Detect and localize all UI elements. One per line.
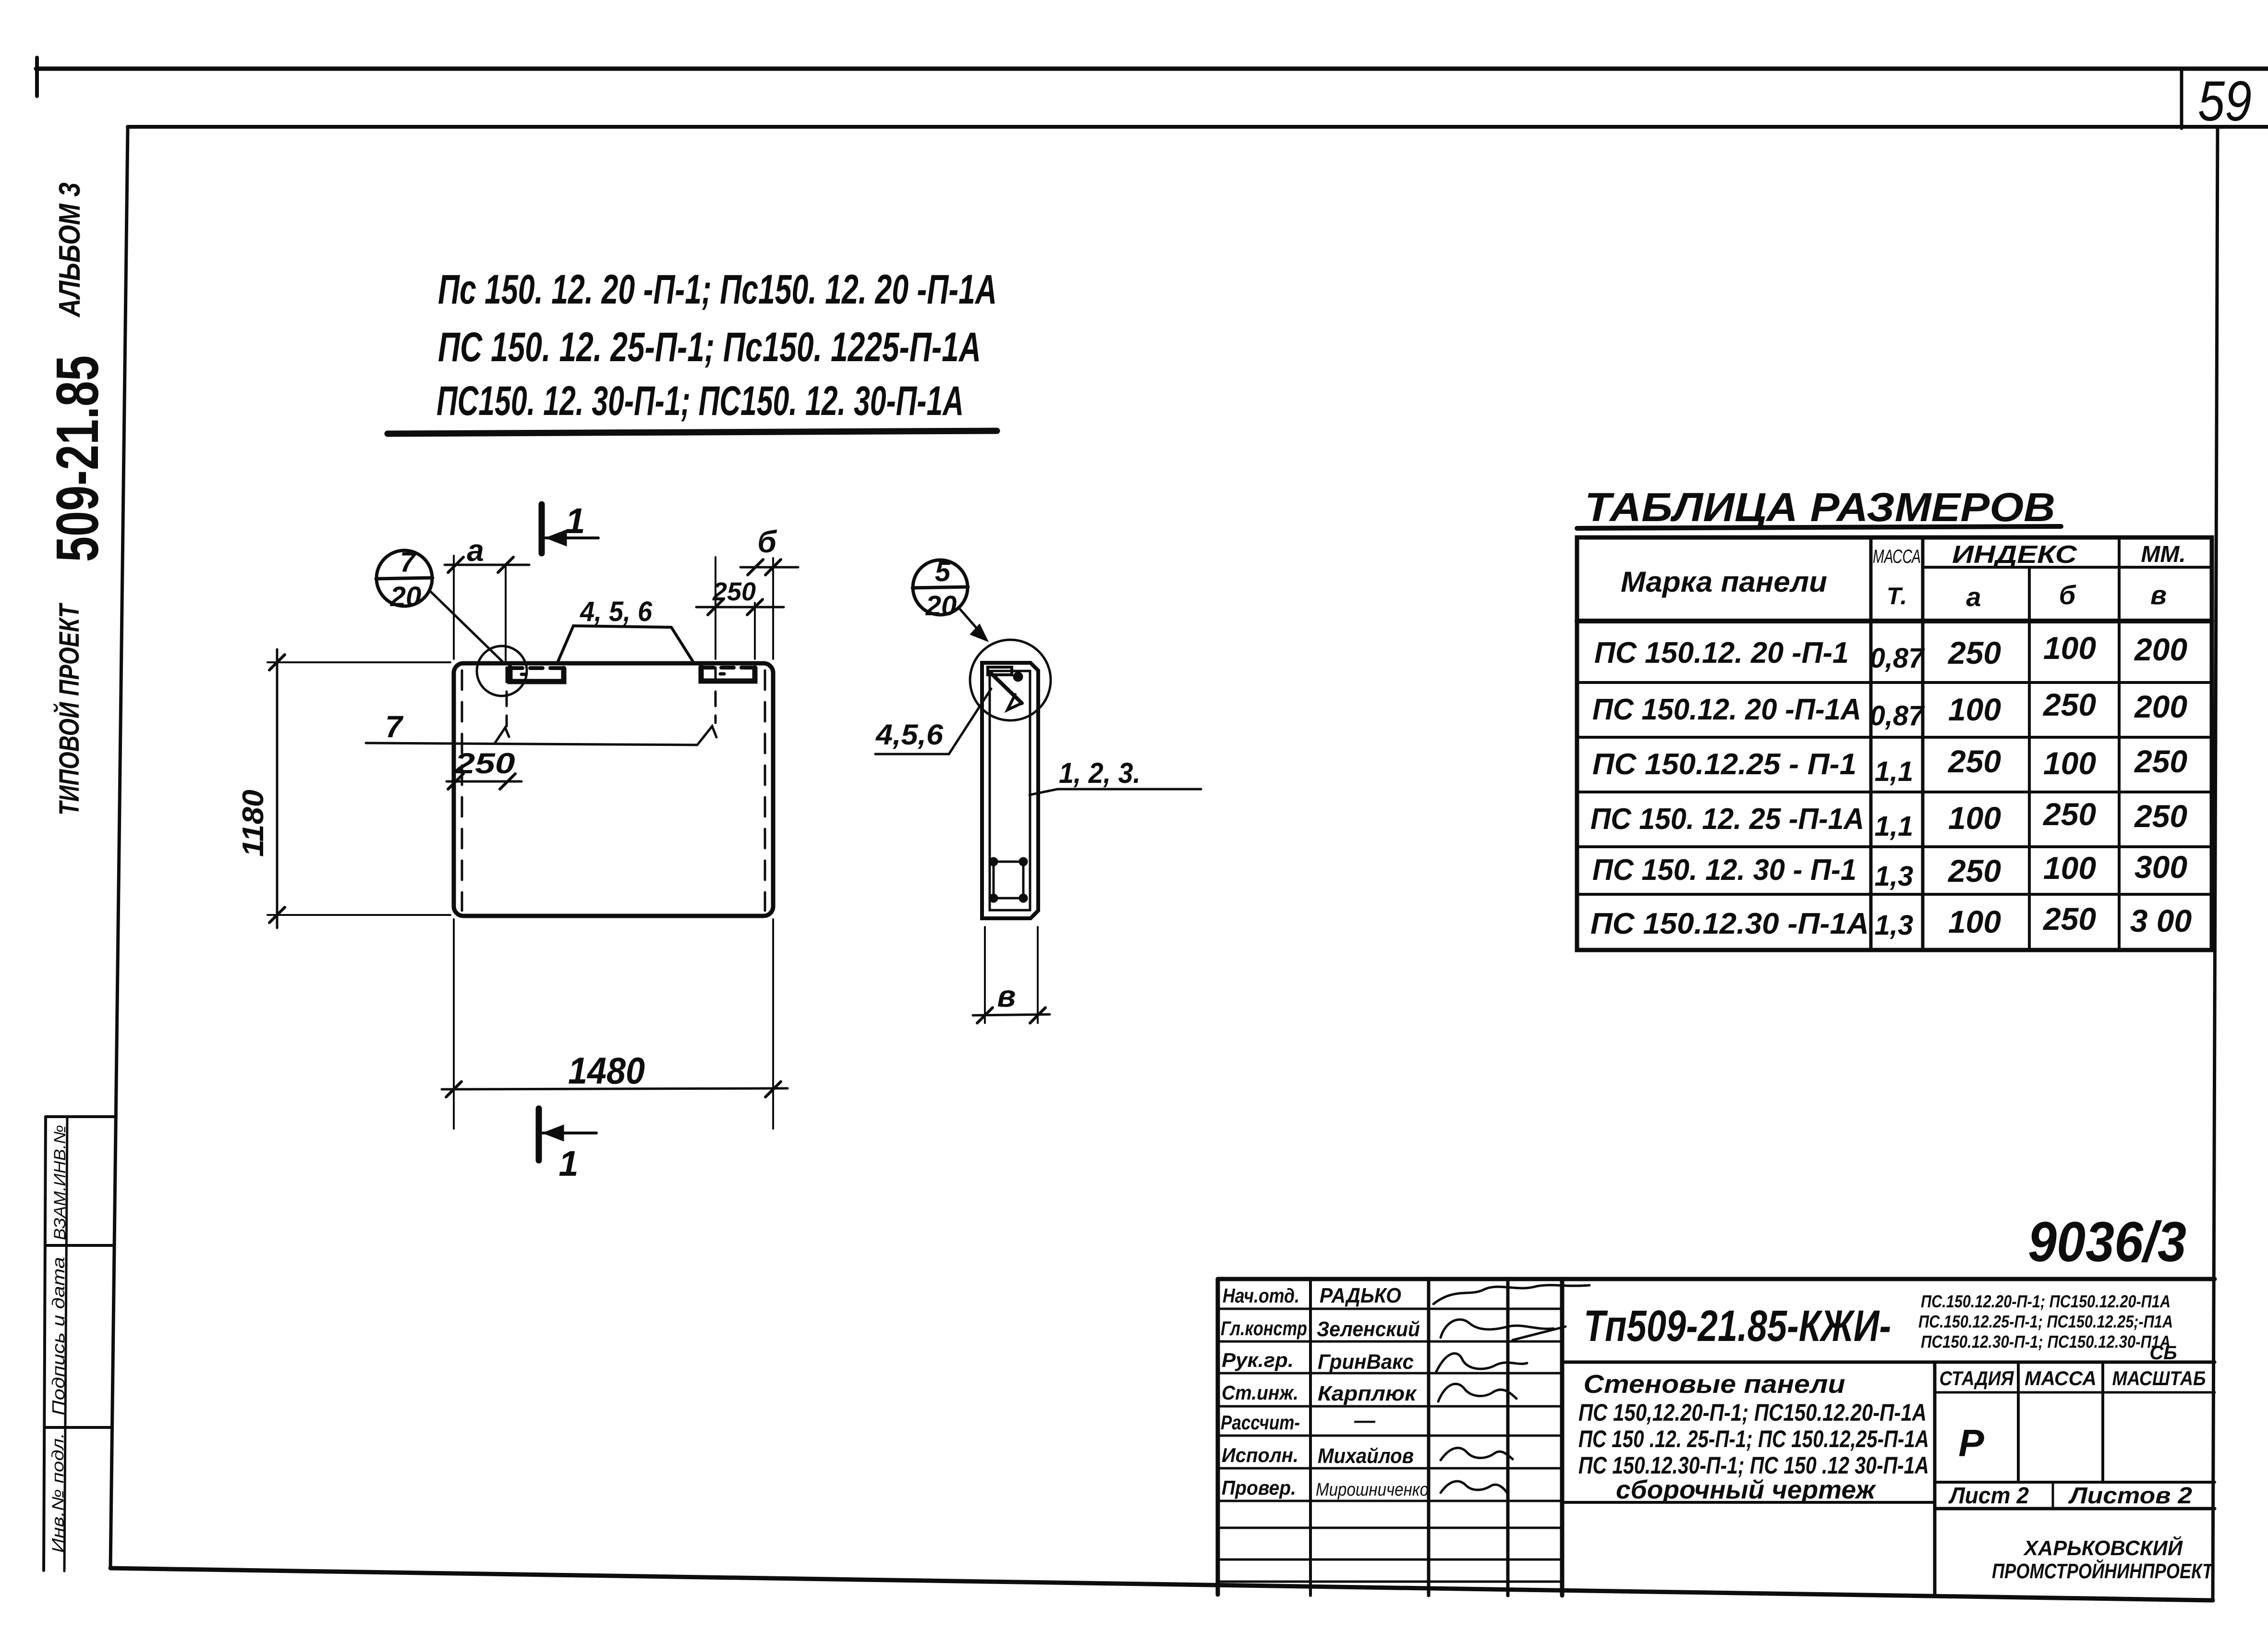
panel hidden edge left dashed [461, 670, 463, 911]
title block name labels [1316, 1284, 1429, 1500]
title block header underline [1562, 1361, 2215, 1364]
side section rebar cage [989, 857, 1028, 902]
title block stage letter [1958, 1422, 1984, 1464]
loop hidden dashed left [506, 668, 508, 726]
svg-text:7: 7 [385, 709, 404, 744]
size table title [1585, 485, 2055, 530]
svg-text:ПС 150.12. 20 -П-1: ПС 150.12. 20 -П-1 [1594, 636, 1849, 670]
svg-text:ПС 150. 12. 25-П-1; Пс150. 122: ПС 150. 12. 25-П-1; Пс150. 1225-П-1А [438, 324, 981, 370]
drawing frame top [128, 125, 2268, 129]
svg-text:4,5,6: 4,5,6 [875, 719, 944, 751]
svg-text:АЛЬБОМ 3: АЛЬБОМ 3 [53, 183, 86, 318]
svg-text:Т.: Т. [1887, 583, 1907, 609]
title block outer top [1218, 1277, 2215, 1281]
svg-text:ПС 150.12. 20 -П-1А: ПС 150.12. 20 -П-1А [1592, 693, 1861, 726]
svg-text:250: 250 [1947, 635, 2001, 670]
svg-text:ВЗАМ.ИНВ.№: ВЗАМ.ИНВ.№ [51, 1125, 69, 1240]
svg-text:в: в [997, 979, 1016, 1013]
dim b label [757, 524, 777, 559]
svg-text:ТАБЛИЦА РАЗМЕРОВ: ТАБЛИЦА РАЗМЕРОВ [1585, 485, 2055, 530]
svg-text:1180: 1180 [237, 790, 270, 857]
title block code big [1584, 1302, 1891, 1351]
label 4,5,6 front [580, 596, 653, 627]
svg-text:Провер.: Провер. [1222, 1476, 1296, 1499]
dim v extension lines [985, 927, 1038, 1023]
size table header bottom line [1577, 619, 2212, 623]
svg-text:250: 250 [712, 577, 756, 606]
dim 1180 extension lines [267, 662, 450, 915]
svg-text:1,1: 1,1 [1875, 756, 1914, 787]
svg-text:9036/3: 9036/3 [2028, 1210, 2186, 1274]
left margin text типовой проект [53, 602, 85, 816]
svg-text:ПС.150.12.25-П-1; ПС150.12.25;: ПС.150.12.25-П-1; ПС150.12.25;-П1А [1918, 1312, 2173, 1331]
svg-text:1480: 1480 [568, 1049, 645, 1092]
title block sheet numbers [1948, 1483, 2192, 1509]
svg-text:—: — [1354, 1409, 1376, 1432]
svg-text:100: 100 [2043, 850, 2096, 886]
section mark 1 bottom arrow [543, 1125, 596, 1141]
top rule [36, 67, 2268, 71]
title block signature row lines [1218, 1309, 1562, 1582]
balloon 7/20 leader [430, 591, 504, 663]
title block outer left [1216, 1279, 1220, 1595]
drawing frame left [110, 127, 128, 1568]
svg-text:5: 5 [935, 556, 951, 587]
svg-text:1: 1 [558, 1144, 578, 1183]
svg-text:ПС 150.12.30-П-1; ПС 150 .12 3: ПС 150.12.30-П-1; ПС 150 .12 30-П-1А [1578, 1452, 1929, 1479]
dim a extension lines [454, 556, 506, 662]
size table row 3 [1592, 743, 2187, 787]
size table row 5 [1592, 849, 2187, 892]
left stamp label подпись и дата [49, 1257, 68, 1415]
label 1,2,3 side [1059, 757, 1140, 789]
sheet number 59 [2198, 70, 2252, 133]
dim 250 left line [447, 774, 522, 789]
section mark 1 top bar [539, 504, 545, 553]
svg-text:20: 20 [390, 581, 422, 612]
size table header a b v [1966, 580, 2166, 612]
title block stage headers [1940, 1367, 2206, 1389]
svg-text:100: 100 [1948, 692, 2001, 727]
signature scribble row 3 [1436, 1353, 1527, 1373]
svg-text:100: 100 [2043, 745, 2096, 781]
dim b line [740, 560, 798, 575]
svg-text:МАССА: МАССА [1873, 546, 1921, 567]
heading underline [388, 431, 997, 434]
drawing frame bottom [110, 1568, 2213, 1600]
svg-text:1: 1 [565, 501, 585, 541]
label 1,2,3 side leader [1030, 789, 1201, 795]
size table header massa [1873, 546, 1921, 609]
balloon 7/20 [376, 547, 433, 612]
dim a label [467, 533, 484, 568]
svg-text:Лист 2: Лист 2 [1948, 1483, 2029, 1509]
svg-text:Рассчит-: Рассчит- [1221, 1411, 1300, 1434]
svg-text:ПС.150.12.20-П-1; ПС150.12.20-: ПС.150.12.20-П-1; ПС150.12.20-П1А [1921, 1292, 2171, 1311]
detail circle on left loop [477, 646, 527, 696]
svg-text:Зеленский: Зеленский [1317, 1317, 1420, 1341]
svg-text:ПС 150.12.25 - П-1: ПС 150.12.25 - П-1 [1592, 748, 1856, 781]
heading line 3 [437, 378, 964, 424]
left stamp strip outline [44, 1117, 114, 1571]
svg-text:200: 200 [2134, 632, 2187, 667]
svg-text:ПС 150 .12. 25-П-1; ПС 150.12,: ПС 150 .12. 25-П-1; ПС 150.12,25-П-1А [1578, 1426, 1929, 1452]
svg-text:250: 250 [2134, 743, 2187, 779]
dim 1480 line [442, 1082, 788, 1097]
heading line 1 [438, 267, 997, 313]
lifting loop right [701, 667, 755, 681]
left margin text albom 3 [53, 183, 86, 318]
leader 7 line [366, 726, 716, 745]
groove callout trapezoid [558, 626, 693, 662]
dim v label [997, 979, 1016, 1013]
svg-text:ГринВакс: ГринВакс [1318, 1350, 1414, 1374]
svg-text:Листов 2: Листов 2 [2068, 1483, 2193, 1509]
svg-text:Нач.отд.: Нач.отд. [1223, 1284, 1299, 1307]
label 4,5,6 side leader [875, 689, 991, 754]
dim 1480 extension lines [454, 919, 773, 1129]
title block right column lines [1562, 1362, 2215, 1596]
dim a line [445, 557, 529, 573]
title block column lines [1310, 1279, 1562, 1596]
section mark 1 bottom bar [536, 1109, 542, 1160]
svg-text:Мирошниченко: Мирошниченко [1316, 1480, 1429, 1500]
left stamp label инв. подл. [49, 1433, 67, 1553]
svg-text:0,87: 0,87 [1870, 643, 1926, 674]
balloon 5/20 [912, 556, 968, 621]
svg-text:а: а [467, 533, 484, 568]
dim 1180 line [269, 649, 285, 928]
svg-text:250: 250 [2042, 796, 2096, 832]
panel front view outline [454, 663, 773, 916]
svg-text:МАССА: МАССА [2025, 1367, 2097, 1389]
svg-text:4, 5, 6: 4, 5, 6 [580, 596, 653, 627]
svg-text:СТАДИЯ: СТАДИЯ [1940, 1367, 2014, 1389]
signature scribble row 1 [1433, 1285, 1589, 1304]
dim 1480 label [568, 1049, 645, 1092]
size table header underline for index [1923, 566, 2212, 569]
signature scribble row 4 [1438, 1384, 1516, 1401]
heading line 2 [438, 324, 981, 370]
svg-text:250: 250 [2042, 901, 2096, 937]
size table outer box [1577, 537, 2212, 950]
svg-text:СБ: СБ [2149, 1342, 2177, 1364]
svg-text:1,3: 1,3 [1875, 910, 1914, 941]
signature scribble row 6 [1441, 1448, 1513, 1460]
svg-text:20: 20 [925, 590, 957, 621]
svg-text:200: 200 [2134, 689, 2187, 724]
section mark 1 top arrow [546, 530, 598, 546]
svg-text:ХАРЬКОВСКИЙ: ХАРЬКОВСКИЙ [2023, 1535, 2183, 1560]
svg-text:250: 250 [454, 747, 515, 780]
dim 250 top right label [712, 577, 756, 606]
svg-text:в: в [2150, 580, 2167, 610]
svg-text:Рук.гр.: Рук.гр. [1222, 1349, 1294, 1371]
svg-text:РАДЬКО: РАДЬКО [1320, 1284, 1401, 1307]
svg-text:3 00: 3 00 [2130, 903, 2192, 938]
size table header marka [1621, 566, 1827, 598]
lifting loop left [510, 668, 564, 682]
side section top anchor detail [988, 667, 1023, 710]
svg-text:250: 250 [2042, 687, 2096, 722]
svg-text:Марка панели: Марка панели [1621, 566, 1827, 598]
svg-text:Инв.№ подл.: Инв.№ подл. [49, 1433, 67, 1553]
dim 250 top right line [696, 599, 784, 615]
svg-text:Ст.инж.: Ст.инж. [1222, 1381, 1298, 1404]
svg-text:59: 59 [2198, 70, 2252, 133]
detail circle on section top [970, 640, 1051, 720]
dim 250 left label [454, 747, 515, 780]
svg-text:0,87: 0,87 [1870, 700, 1926, 731]
svg-text:1,3: 1,3 [1875, 861, 1914, 892]
signature scribble row 7 [1441, 1481, 1508, 1494]
size table row 1 [1594, 630, 2187, 674]
svg-text:б: б [757, 524, 777, 559]
signature scribble row 2 [1441, 1319, 1565, 1340]
size table row lines [1577, 682, 2212, 894]
label 4,5,6 side [875, 719, 944, 751]
svg-text:509-21.85: 509-21.85 [45, 355, 111, 562]
title block subject [1578, 1370, 1929, 1504]
svg-text:ПС150.12.30-П-1; ПС150.12.30-П: ПС150.12.30-П-1; ПС150.12.30-П1А [1921, 1332, 2171, 1352]
svg-text:сборочный чертеж: сборочный чертеж [1616, 1475, 1877, 1504]
svg-text:МАСШТАБ: МАСШТАБ [2112, 1367, 2206, 1389]
title block role labels [1221, 1284, 1307, 1499]
svg-text:Исполн.: Исполн. [1222, 1444, 1298, 1466]
leader 7 label [385, 709, 404, 744]
dim v line [973, 1008, 1050, 1023]
size table header index [1952, 541, 2186, 569]
svg-text:Карплюк: Карплюк [1318, 1382, 1418, 1405]
sheet number box divider [2180, 69, 2183, 128]
balloon 5/20 leader [959, 609, 988, 642]
svg-text:ПС 150.12.30 -П-1А: ПС 150.12.30 -П-1А [1590, 907, 1869, 940]
side section inner profile [990, 671, 1030, 910]
svg-text:1,1: 1,1 [1875, 811, 1914, 842]
svg-text:Тп509-21.85-КЖИ-: Тп509-21.85-КЖИ- [1584, 1302, 1891, 1351]
svg-text:Гл.констр: Гл.констр [1221, 1317, 1307, 1340]
svg-text:ПС 150. 12. 30 - П-1: ПС 150. 12. 30 - П-1 [1592, 853, 1856, 887]
svg-text:а: а [1966, 582, 1981, 612]
svg-text:б: б [2059, 580, 2076, 610]
section mark 1 top label [565, 501, 585, 541]
title block organization [1992, 1535, 2214, 1583]
size table row 2 [1592, 687, 2187, 731]
dim b extension lines [716, 557, 773, 659]
svg-text:300: 300 [2135, 849, 2187, 885]
size table column lines [1871, 537, 2119, 950]
left margin project number 509-21.85 [45, 355, 111, 562]
dim 1180 label [237, 790, 270, 857]
svg-text:Михайлов: Михайлов [1318, 1444, 1414, 1468]
panel hidden edge right dashed [764, 670, 766, 911]
svg-text:Пс 150. 12. 20 -П-1; Пс150. 12: Пс 150. 12. 20 -П-1; Пс150. 12. 20 -П-1А [438, 267, 997, 313]
left stamp label взам.инв. [51, 1125, 69, 1240]
svg-text:100: 100 [1948, 800, 2001, 836]
svg-text:ИНДЕКС: ИНДЕКС [1952, 541, 2078, 569]
svg-text:ПС 150. 12. 25 -П-1А: ПС 150. 12. 25 -П-1А [1590, 803, 1864, 836]
size table row 4 [1590, 796, 2187, 842]
svg-text:7: 7 [400, 547, 417, 578]
side section outer profile [982, 663, 1038, 918]
svg-text:250: 250 [2134, 798, 2187, 834]
size table title underline [1577, 526, 2061, 528]
svg-text:100: 100 [2043, 630, 2096, 666]
svg-text:Р: Р [1958, 1422, 1984, 1464]
svg-text:ТИПОВОЙ ПРОЕКТ: ТИПОВОЙ ПРОЕКТ [53, 602, 85, 816]
loop hidden dashed right [715, 668, 717, 723]
svg-text:ПС150. 12. 30-П-1; ПС150. 12.: ПС150. 12. 30-П-1; ПС150. 12. 30-П-1А [437, 378, 964, 424]
section mark 1 bottom label [558, 1144, 578, 1183]
size table row 6 [1590, 901, 2192, 941]
drawing frame right [2213, 127, 2218, 1600]
top rule left tick [35, 58, 39, 96]
svg-text:1, 2, 3.: 1, 2, 3. [1059, 757, 1140, 789]
svg-text:Стеновые панели: Стеновые панели [1584, 1370, 1845, 1399]
svg-text:ММ.: ММ. [2141, 542, 2185, 567]
svg-text:100: 100 [1948, 904, 2001, 939]
svg-text:250: 250 [1947, 743, 2001, 779]
svg-text:ПС 150,12.20-П-1; ПС150.12.20-: ПС 150,12.20-П-1; ПС150.12.20-П-1А [1578, 1399, 1927, 1426]
svg-text:ПРОМСТРОЙНИНПРОЕКТ: ПРОМСТРОЙНИНПРОЕКТ [1992, 1559, 2214, 1583]
title block code small lines [1918, 1292, 2177, 1364]
svg-text:250: 250 [1947, 853, 2001, 889]
svg-text:Подпись и дата: Подпись и дата [49, 1257, 68, 1415]
order number 9036/3 [2028, 1210, 2186, 1274]
